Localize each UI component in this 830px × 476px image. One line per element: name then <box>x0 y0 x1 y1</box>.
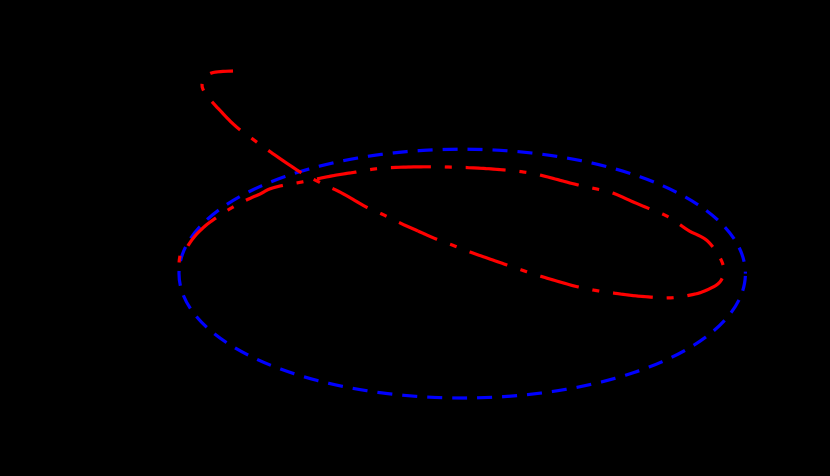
red dash-dot trajectory (spiral), head segment <box>202 71 418 231</box>
blue dashed ellipse (closed orbit) <box>179 149 745 398</box>
red dash-dot trajectory (spiral), tail segment <box>179 167 724 298</box>
